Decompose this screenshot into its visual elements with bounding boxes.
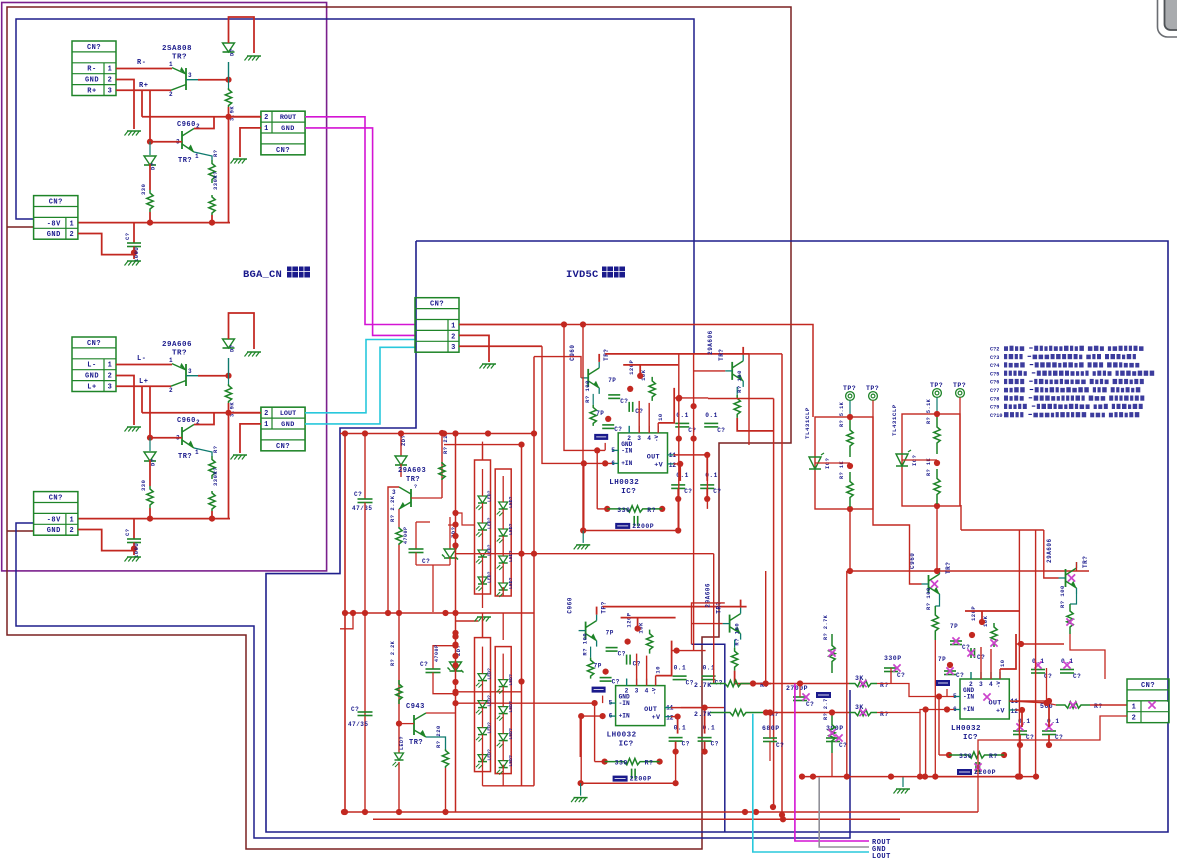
svg-text:47/35: 47/35: [348, 721, 369, 728]
wire rail x448 upper zener: [448, 524, 456, 526]
svg-text:2SA808: 2SA808: [162, 45, 192, 53]
svg-text:+IN: +IN: [963, 706, 974, 713]
wire chain to section3: [756, 683, 849, 685]
svg-text:0.1: 0.1: [676, 472, 689, 479]
svg-text:LED?: LED?: [508, 550, 514, 562]
resistor R? 330 feedback: [946, 752, 952, 758]
capacitor C? 2200P: [633, 516, 635, 526]
svg-text:TR?: TR?: [172, 350, 187, 358]
svg-text:0.1: 0.1: [676, 412, 689, 419]
LED LED? colA: [478, 523, 487, 530]
svg-text:L+: L+: [139, 378, 148, 386]
svg-text:7P: 7P: [606, 630, 614, 637]
svg-text:C960: C960: [177, 417, 196, 425]
wire input minus: [116, 364, 172, 366]
svg-text:10: 10: [655, 666, 662, 674]
wire pins to network: [970, 672, 972, 679]
transistor TR? C960: [585, 622, 587, 640]
wire colA top stub: [482, 619, 484, 637]
LED LED? colB: [499, 556, 508, 563]
svg-text:CN?: CN?: [87, 44, 101, 52]
svg-text:IC?: IC?: [963, 734, 978, 742]
svg-text:1: 1: [1132, 704, 1137, 712]
svg-text:TP?: TP?: [843, 385, 856, 392]
svg-text:1: 1: [264, 421, 269, 429]
wire rail y433: [340, 433, 534, 435]
wire base feed 29A606-3: [1044, 530, 1059, 578]
svg-text:OUT: OUT: [647, 453, 660, 461]
resistor R? 330 feedback: [602, 759, 608, 765]
svg-text:R? 100: R? 100: [734, 623, 741, 646]
diode ZD? top: [400, 432, 402, 456]
wire 29A606 base: [691, 623, 723, 625]
wire -V pin10: [658, 388, 674, 423]
svg-text:TP?: TP?: [953, 382, 966, 389]
svg-text:1: 1: [70, 516, 75, 524]
svg-text:C943: C943: [406, 703, 425, 711]
svg-text:C?: C?: [717, 427, 725, 434]
svg-text:C?: C?: [956, 672, 964, 679]
wire input plus: [116, 385, 171, 387]
wire rail y613: [345, 612, 534, 614]
wire GND pin2 to cap: [78, 530, 134, 551]
svg-text:TR?: TR?: [1082, 556, 1089, 568]
wire mid verticals: [678, 354, 680, 531]
svg-text:CN?: CN?: [1141, 682, 1155, 690]
LED LED? colB: [499, 529, 508, 536]
svg-text:0.1: 0.1: [674, 665, 687, 672]
wire navy net -8V top: [16, 19, 694, 353]
wire +IN2 feed: [580, 715, 602, 717]
wire output row: [142, 116, 261, 118]
svg-text:2700P: 2700P: [786, 685, 808, 692]
svg-text:12: 12: [669, 462, 677, 469]
wire -IN +IN inputs: [594, 447, 600, 453]
svg-text:GND: GND: [281, 421, 295, 429]
wire upper array feed: [482, 445, 484, 460]
resistor R? 2.7K vertical with X: [829, 634, 835, 673]
svg-text:29A603: 29A603: [398, 467, 426, 475]
ground: [580, 783, 582, 795]
svg-text:4: 4: [989, 681, 993, 688]
svg-text:TR?: TR?: [178, 453, 192, 461]
svg-text:R? 5.1K: R? 5.1K: [926, 398, 932, 424]
LED LED? colA: [478, 577, 487, 584]
wire C960 collector to rail: [596, 607, 598, 615]
wire output to connector: [229, 116, 262, 118]
wire collector to node: [198, 375, 229, 377]
zener diode ZD? lower: [450, 662, 462, 671]
svg-text:3: 3: [979, 681, 983, 688]
svg-text:TR?: TR?: [406, 476, 420, 484]
resistor R? 3.9K: [228, 80, 230, 88]
svg-text:100U: 100U: [133, 247, 140, 262]
LED column B outline: [495, 647, 511, 774]
svg-text:1: 1: [451, 322, 456, 330]
wire magenta ROUT GND: [305, 128, 415, 336]
svg-text:R?: R?: [989, 753, 998, 760]
svg-text:LED?: LED?: [508, 577, 514, 589]
svg-text:3: 3: [392, 489, 396, 496]
transistor TR? 29A606 right: [729, 615, 731, 633]
connector output rows: [261, 111, 305, 155]
transistor TR? C960: [587, 369, 589, 387]
wire lower array feed: [482, 613, 484, 638]
svg-text:120P: 120P: [970, 606, 977, 621]
wire right emitter: [737, 418, 773, 431]
wire pins to network: [628, 426, 630, 433]
wire input plus: [116, 89, 171, 91]
wire collector C960 to output row: [194, 117, 214, 129]
svg-text:330R?: 330R?: [212, 171, 219, 190]
LED LED? colA: [478, 674, 487, 681]
wire pin1 long: [459, 324, 564, 326]
wire colA bottom stub: [482, 575, 484, 594]
svg-text:1: 1: [169, 357, 173, 364]
wire left drop to bottom rail: [582, 325, 584, 531]
ground between LED arrays: [456, 620, 479, 622]
wire output row: [142, 412, 261, 414]
svg-text:GND: GND: [47, 527, 61, 535]
LED LED? colA: [478, 496, 487, 503]
wire LED right vertical x534: [533, 357, 535, 786]
svg-text:CN?: CN?: [49, 199, 63, 207]
svg-text:C?: C?: [713, 488, 721, 495]
LED LED? colA: [478, 550, 487, 557]
svg-text:330: 330: [140, 184, 147, 195]
svg-text:R? 2.2K: R? 2.2K: [390, 640, 396, 666]
svg-text:L-: L-: [87, 362, 96, 370]
svg-text:2: 2: [108, 77, 113, 85]
LED LED? colB: [499, 680, 508, 687]
svg-text:GND: GND: [281, 125, 295, 133]
svg-text:2: 2: [70, 527, 75, 535]
wire TL431 box outline: [815, 417, 873, 509]
resistor R? 100 section3 left: [935, 600, 939, 606]
wire base from right: [411, 497, 442, 499]
svg-text:C?: C?: [688, 427, 696, 434]
svg-text:C?: C?: [618, 651, 626, 658]
capacitor C? 4700P lower: [433, 646, 456, 669]
svg-text:CN?: CN?: [87, 340, 101, 348]
svg-text:4: 4: [645, 688, 649, 695]
LED LED? colA: [478, 728, 487, 735]
svg-text:TR?: TR?: [409, 739, 423, 747]
svg-text:R? 2.7K: R? 2.7K: [823, 614, 829, 640]
ground: [127, 556, 141, 558]
svg-text:C?: C?: [684, 488, 692, 495]
connector CN? output LOUT: [261, 407, 305, 451]
svg-text:-V: -V: [995, 681, 1002, 688]
wire collector to node: [198, 79, 229, 81]
wire purple board outline BGA_CN: [2, 3, 327, 571]
junctions rail y613: [342, 610, 348, 616]
wire zener feeds: [456, 513, 475, 525]
wire 29A606 collector up: [740, 600, 742, 608]
svg-text:1: 1: [108, 362, 113, 370]
capacitor pair 0.1 right upper: [674, 648, 680, 654]
svg-text:7P: 7P: [938, 656, 946, 663]
wire GND pin to ground: [116, 80, 134, 130]
svg-text:+IN: +IN: [621, 460, 632, 467]
wire LED bottom link y785: [483, 785, 535, 787]
svg-text:R?: R?: [212, 149, 219, 157]
wire TL431 feeds down: [849, 509, 851, 571]
svg-text:C?: C?: [839, 742, 847, 749]
svg-text:IVD5C: IVD5C: [566, 269, 599, 281]
wire feed vertical to bottom rail: [846, 571, 848, 777]
wire pin3 to +IN1: [542, 346, 612, 463]
resistor R? emitter 330: [194, 448, 212, 456]
wire 29A606 base: [694, 370, 726, 372]
ground: [482, 363, 496, 365]
wire supply verticals right section: [1018, 530, 1020, 777]
LED LED? colB: [499, 734, 508, 741]
svg-text:C?: C?: [686, 680, 694, 687]
svg-text:1: 1: [264, 125, 269, 133]
svg-text:LH0032: LH0032: [609, 479, 639, 487]
wire lower caps connections: [679, 464, 681, 481]
svg-text:C?: C?: [1044, 673, 1052, 680]
svg-text:LED?: LED?: [487, 571, 493, 583]
zener diode ZD?: [449, 517, 451, 549]
wire -V pin10: [1000, 634, 1016, 669]
svg-text:2200P: 2200P: [974, 769, 996, 776]
svg-text:3: 3: [108, 384, 113, 392]
wire OUT3 to connector: [1047, 703, 1057, 705]
resistor R? emitter 330: [194, 152, 212, 160]
wire ref connection: [902, 459, 937, 461]
node junction C943 base: [396, 721, 402, 727]
wire section1 top-rail extension: [749, 353, 782, 355]
svg-text:29A606: 29A606: [705, 583, 712, 608]
svg-text:LED?: LED?: [508, 728, 514, 740]
wire 29A606 collector up: [742, 347, 744, 355]
wire maroon outer net: [7, 7, 791, 849]
svg-text:C?: C?: [620, 398, 628, 405]
diode D? lower: [149, 438, 151, 451]
svg-text:330: 330: [959, 753, 972, 760]
wire -8V rail: [78, 518, 230, 520]
svg-text:R? 100: R? 100: [582, 633, 589, 656]
wire C960-3 collector: [939, 568, 941, 571]
svg-text:GND: GND: [85, 373, 99, 381]
svg-text:2: 2: [451, 333, 456, 341]
wire box outline 29A606 section2: [692, 603, 725, 644]
svg-text:4700P: 4700P: [403, 526, 409, 544]
svg-text:R? 2.7: R? 2.7: [823, 698, 829, 720]
svg-text:-IN: -IN: [963, 694, 974, 701]
wire OUT to right: [674, 454, 708, 456]
resistor R? 1K: [934, 469, 940, 504]
wire magenta ROUT: [305, 117, 415, 325]
svg-text:C?: C?: [806, 701, 814, 708]
node junction collector: [225, 373, 231, 379]
wire GND pin to ground: [116, 376, 134, 426]
connector CN? input L-: [72, 337, 116, 392]
connector CN? output right: [1127, 679, 1169, 723]
wire bottom rail: [583, 530, 678, 532]
wire feedback to -IN: [596, 450, 598, 509]
wire +V pin12: [671, 716, 678, 718]
svg-text:2: 2: [1132, 714, 1137, 722]
svg-text:C960: C960: [567, 597, 574, 613]
svg-text:R?: R?: [645, 760, 654, 767]
ground: [233, 454, 247, 456]
junctions rail y433: [342, 430, 348, 436]
svg-text:CN?: CN?: [430, 301, 444, 309]
svg-text:C?3: C?3: [990, 355, 999, 361]
svg-text:2: 2: [70, 231, 75, 239]
svg-text:R+: R+: [87, 88, 96, 96]
wire lower caps connections: [1021, 710, 1023, 727]
svg-text:2: 2: [627, 435, 631, 442]
svg-text:4700P: 4700P: [434, 644, 440, 662]
wire feedback to -IN: [594, 703, 596, 762]
svg-text:1: 1: [195, 449, 199, 456]
svg-text:C?: C?: [420, 661, 428, 668]
svg-text:100U: 100U: [133, 543, 140, 558]
svg-text:TR?: TR?: [178, 157, 192, 165]
svg-text:CN?: CN?: [276, 147, 290, 155]
wire feedback to -IN: [938, 697, 940, 756]
svg-text:330: 330: [615, 760, 628, 767]
svg-text:C960: C960: [177, 121, 196, 129]
svg-text:C?8: C?8: [990, 396, 999, 402]
svg-text:GND: GND: [47, 231, 61, 239]
ground: [902, 777, 904, 787]
node 7P to -IN: [946, 689, 948, 697]
svg-text:IC?: IC?: [621, 488, 636, 496]
svg-text:R? 100: R? 100: [736, 370, 743, 393]
wire -IN +IN inputs: [592, 700, 598, 706]
resistor R? 2.7K upper: [710, 680, 756, 686]
svg-text:CN?: CN?: [49, 495, 63, 503]
svg-text:-IN: -IN: [621, 447, 632, 454]
svg-text:3: 3: [451, 344, 456, 352]
LED column B outline: [495, 469, 511, 596]
svg-text:D?: D?: [229, 48, 236, 56]
svg-text:0.1: 0.1: [674, 725, 687, 732]
transistor TR? C960 section3: [928, 575, 930, 593]
svg-text:3: 3: [188, 72, 192, 79]
svg-text:4: 4: [647, 435, 651, 442]
svg-text:LOUT: LOUT: [872, 853, 891, 861]
svg-text:C?: C?: [711, 741, 719, 748]
wire TL431 box outline: [902, 414, 960, 506]
wire 2.7K chain section2 to section3: [681, 707, 724, 709]
svg-text:330P: 330P: [884, 655, 902, 662]
wire cyan LOUT: [305, 340, 415, 413]
node junction -8V rail: [147, 220, 153, 226]
wire OUT to right: [671, 707, 705, 709]
svg-text:C?: C?: [897, 672, 905, 679]
resistor R? 220: [441, 462, 443, 498]
svg-text:TL431CLP: TL431CLP: [891, 404, 898, 436]
resistor R? 2.7 vertical lower with X: [829, 713, 835, 754]
svg-text:C?: C?: [1073, 673, 1081, 680]
node junction mid: [934, 411, 940, 417]
svg-text:CN?: CN?: [276, 443, 290, 451]
svg-text:120P: 120P: [626, 612, 633, 627]
wire bottom rail: [925, 776, 1020, 778]
svg-text:TR?: TR?: [945, 562, 952, 574]
svg-text:7P: 7P: [594, 663, 602, 670]
svg-text:TR?: TR?: [172, 54, 187, 62]
svg-text:L+: L+: [87, 384, 96, 392]
svg-text:1: 1: [70, 220, 75, 228]
svg-text:TL431CLP: TL431CLP: [804, 407, 811, 439]
svg-text:-8V: -8V: [47, 220, 61, 228]
resistor R? 100 right: [734, 640, 736, 648]
svg-text:R?: R?: [647, 507, 656, 514]
node junction -8V rail: [147, 516, 153, 522]
diode D? to ground top: [228, 358, 230, 376]
svg-text:680P: 680P: [762, 725, 780, 732]
wire vertical x365 lower: [364, 613, 366, 812]
wire +V pin12: [674, 463, 681, 465]
LED LED? colB: [499, 583, 508, 590]
node junction collector: [225, 77, 231, 83]
svg-text:R-: R-: [137, 59, 146, 67]
svg-text:7P: 7P: [596, 410, 604, 417]
svg-text:2200P: 2200P: [630, 776, 652, 783]
node junction ROUT line: [225, 114, 231, 120]
svg-text:2: 2: [169, 91, 173, 98]
LED LED? colB: [499, 502, 508, 509]
svg-text:-8V: -8V: [47, 516, 61, 524]
node junctions top network: [979, 619, 985, 625]
resistor R? 3K lower with X: [849, 709, 877, 715]
svg-text:LED?: LED?: [487, 517, 493, 529]
wire vertical x713 to section2: [713, 554, 715, 684]
wire pins to network: [626, 679, 628, 686]
LED LED? colB: [499, 707, 508, 714]
svg-text:C?: C?: [354, 491, 362, 498]
resistor R? 330 feedback: [604, 506, 610, 512]
svg-text:LH0032: LH0032: [607, 732, 637, 740]
svg-text:C?: C?: [422, 558, 430, 565]
ground: [247, 55, 261, 57]
svg-text:3: 3: [188, 368, 192, 375]
capacitor pair 0.1 right upper: [676, 395, 682, 401]
svg-text:10: 10: [999, 659, 1006, 667]
svg-text:2: 2: [108, 373, 113, 381]
resistor R? 100 right: [736, 387, 738, 395]
svg-text:0.1: 0.1: [705, 412, 718, 419]
wire jog left lower: [340, 613, 353, 629]
wire lower caps connections: [677, 717, 679, 734]
transistor TR? 29A606 section3: [1065, 569, 1067, 587]
svg-text:TP?: TP?: [930, 382, 943, 389]
wire 29A606-3 collector: [1076, 562, 1078, 571]
svg-text:C?: C?: [124, 528, 131, 536]
wire C943 collector: [426, 712, 456, 714]
wire connector GND to ground: [240, 424, 261, 453]
svg-text:R? 100: R? 100: [584, 380, 591, 403]
svg-text:TR?: TR?: [718, 349, 725, 361]
wire collector left to rail: [388, 487, 399, 613]
diode D? lower: [149, 142, 151, 155]
LED LED? colA: [478, 701, 487, 708]
svg-text:+IN: +IN: [619, 713, 630, 720]
svg-text:+V: +V: [652, 714, 661, 722]
svg-text:R?: R?: [212, 445, 219, 453]
wire -IN +IN inputs: [936, 693, 942, 699]
wire gray GND to label: [819, 777, 869, 847]
svg-text:C?: C?: [614, 426, 622, 433]
wire LED feed vertical x455: [455, 434, 457, 813]
